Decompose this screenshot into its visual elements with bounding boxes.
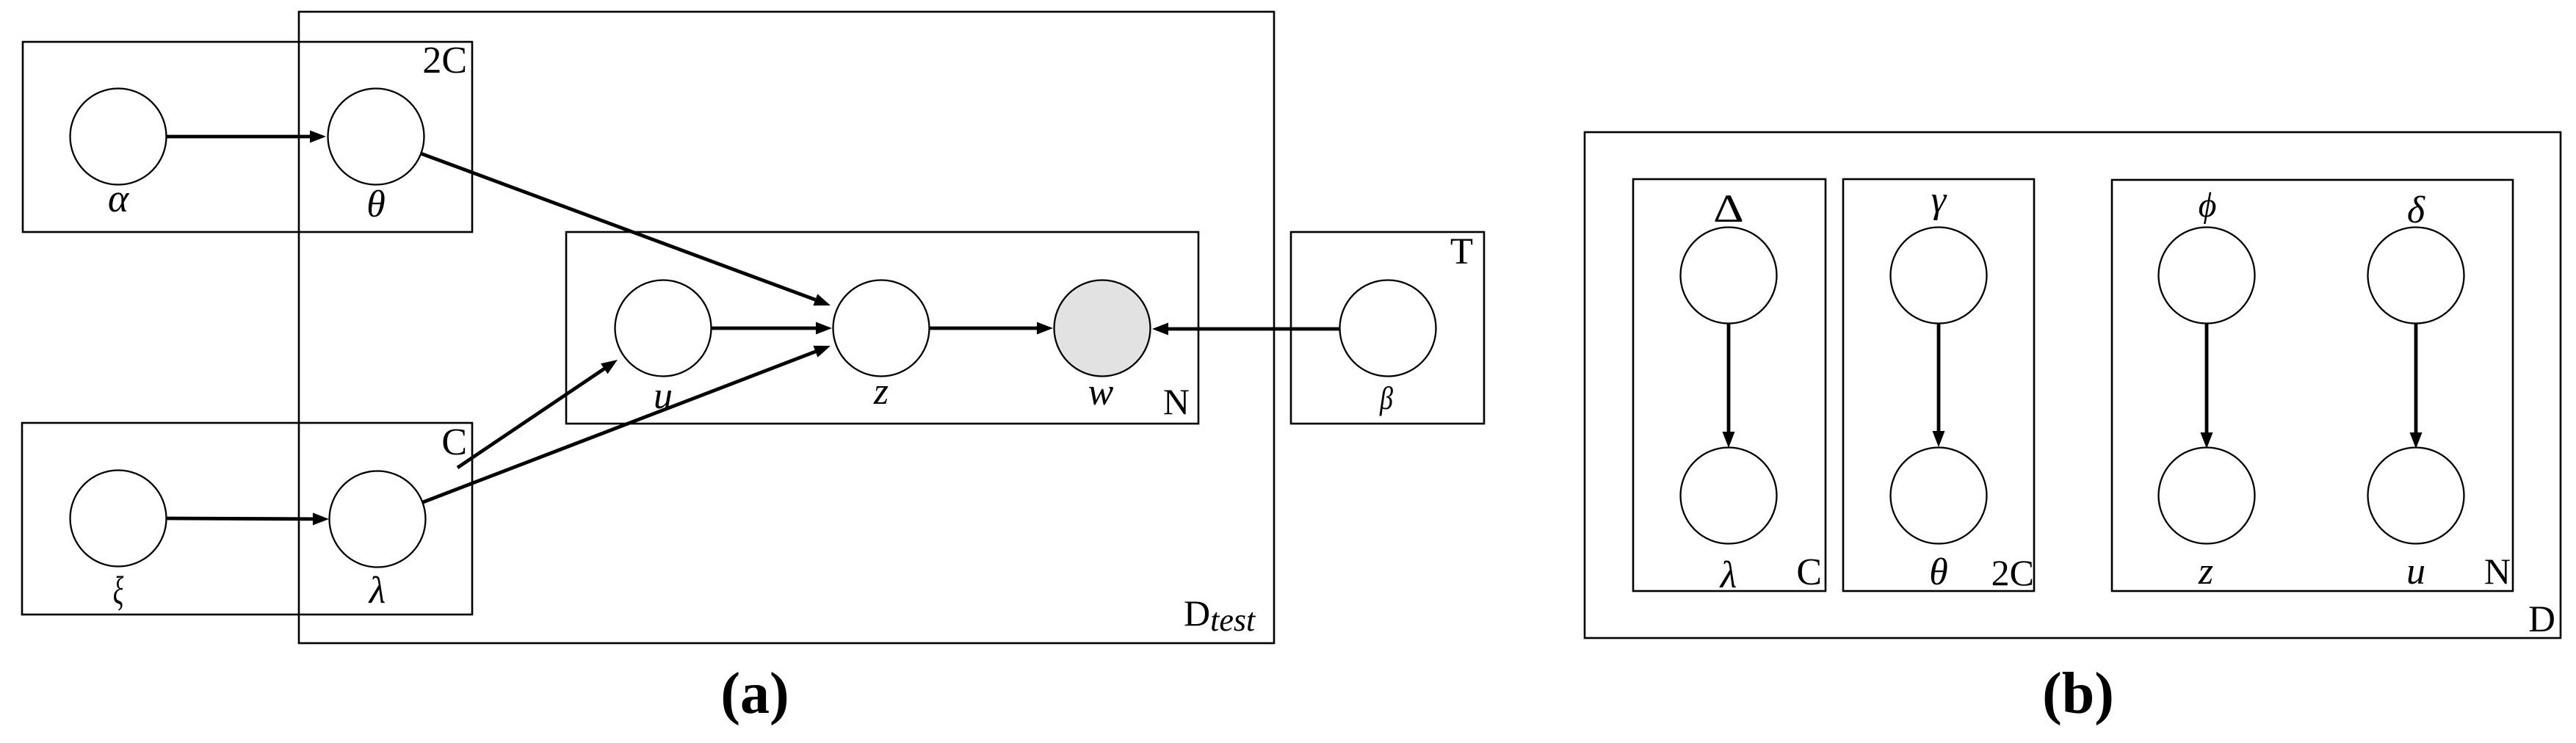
svg-text:C: C xyxy=(441,421,467,463)
node w shaded xyxy=(1054,280,1151,377)
plate alpha/2C xyxy=(23,42,472,232)
node z-b xyxy=(2159,448,2255,544)
svg-text:N: N xyxy=(2484,551,2511,592)
node lambda xyxy=(330,471,426,568)
svg-text:ξ: ξ xyxy=(113,568,124,612)
node z xyxy=(833,280,930,377)
node delta-prior xyxy=(2368,228,2464,324)
svg-text:λ: λ xyxy=(1719,554,1737,596)
svg-text:γ: γ xyxy=(1931,179,1947,221)
plate C-b xyxy=(1633,179,1826,591)
svg-text:u: u xyxy=(2406,551,2425,592)
svg-text:θ: θ xyxy=(366,184,386,225)
node lambda-b xyxy=(1681,448,1777,544)
node xi xyxy=(70,471,167,567)
plate N-b xyxy=(2112,180,2513,591)
node phi-prior xyxy=(2159,228,2255,324)
node Delta-prior xyxy=(1681,228,1777,324)
svg-text:z: z xyxy=(2198,551,2213,592)
node u-b xyxy=(2368,448,2464,544)
svg-text:u: u xyxy=(654,375,673,417)
arrow xi->lambda xyxy=(167,517,313,521)
svg-text:δ: δ xyxy=(2407,189,2425,231)
arrow Delta->lambda_b xyxy=(1727,323,1731,432)
svg-text:(a): (a) xyxy=(720,662,789,726)
svg-text:λ: λ xyxy=(368,570,386,612)
node theta xyxy=(328,89,424,185)
arrow z->w xyxy=(930,327,1037,330)
svg-text:α: α xyxy=(108,176,130,220)
svg-text:2C: 2C xyxy=(422,40,467,81)
arrow theta->z xyxy=(421,153,815,300)
arrow lambda->z xyxy=(423,352,816,502)
node gamma-prior xyxy=(1891,228,1987,324)
arrow alpha->theta xyxy=(167,135,310,139)
plate D xyxy=(1585,132,2561,638)
plate 2C-b xyxy=(1843,179,2034,591)
svg-text:Δ: Δ xyxy=(1713,186,1744,231)
svg-text:T: T xyxy=(1450,231,1473,272)
arrow phi->z_b xyxy=(2205,323,2209,432)
svg-text:β: β xyxy=(1379,380,1393,416)
arrow lambda->u xyxy=(457,369,604,468)
node beta xyxy=(1340,280,1436,377)
node alpha xyxy=(70,89,167,185)
svg-text:C: C xyxy=(1796,551,1822,593)
svg-text:N: N xyxy=(1163,381,1190,422)
plate N xyxy=(566,232,1198,424)
plate D_test xyxy=(299,12,1274,643)
node theta-b xyxy=(1891,448,1987,544)
node u xyxy=(615,280,712,377)
svg-text:θ: θ xyxy=(1929,551,1948,593)
svg-text:D: D xyxy=(2528,599,2555,640)
arrow beta->w xyxy=(1168,327,1339,331)
arrow gamma->theta_b xyxy=(1937,323,1941,431)
svg-text:(b): (b) xyxy=(2042,662,2114,726)
plate T xyxy=(1291,232,1484,424)
arrow delta->u_b xyxy=(2414,323,2418,432)
svg-text:2C: 2C xyxy=(1991,552,2034,593)
svg-text:z: z xyxy=(873,371,889,413)
arrow u->z xyxy=(712,327,816,330)
svg-text:ϕ: ϕ xyxy=(2199,186,2217,225)
plate xi/C xyxy=(22,423,472,615)
svg-text:w: w xyxy=(1088,371,1114,413)
